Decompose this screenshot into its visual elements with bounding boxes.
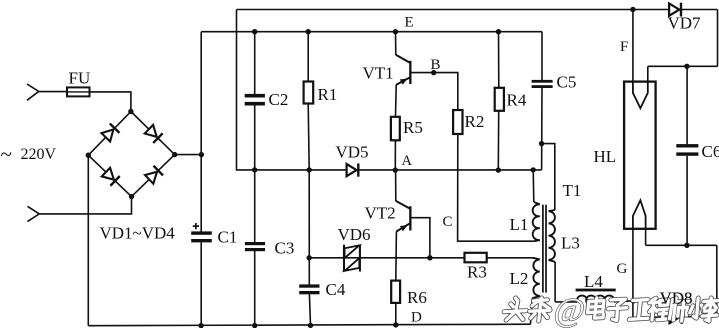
wire lamp bottom-right (646, 244, 717, 246)
label C6 (702, 142, 719, 161)
svg-text:C5: C5 (557, 73, 577, 92)
node C1 bottom rail (198, 323, 203, 328)
label VT2 (365, 204, 396, 223)
AC input terminal top (27, 84, 39, 100)
svg-text:C4: C4 (326, 280, 346, 299)
label R5 (403, 118, 423, 137)
resistor R4 (495, 88, 504, 111)
node C6 bottom junction (684, 243, 689, 248)
wire bridge edge VD4 (132, 155, 175, 197)
diode VD5 (347, 164, 359, 177)
svg-text:G: G (617, 261, 628, 277)
inductor L2 (531, 258, 540, 324)
label R6 (407, 288, 427, 307)
node C2C3-A junction (252, 167, 257, 172)
wire R2 to L1 bottom (458, 134, 535, 241)
node C4 bottom rail (308, 323, 313, 328)
svg-text:R3: R3 (467, 263, 487, 282)
svg-text:R6: R6 (407, 288, 427, 307)
svg-text:C2: C2 (269, 90, 289, 109)
diode VD4 (145, 166, 163, 184)
label VD7 (668, 14, 702, 33)
capacitor C6 (676, 144, 698, 156)
wire lamp top-right (648, 65, 718, 67)
svg-text:VD8: VD8 (660, 289, 693, 308)
node A (393, 167, 398, 172)
node C5-L3 junction (539, 141, 544, 146)
inductor L4 (576, 289, 616, 302)
wire fuse-to-bridge-top (90, 92, 131, 112)
node B (431, 70, 436, 75)
node C3 bottom rail (252, 323, 257, 328)
wire C2 upper (254, 32, 256, 94)
label VD5 (336, 143, 369, 162)
wire C1 column lower (200, 242, 202, 325)
wire VT2 collector (395, 170, 397, 201)
wire VD8 row (633, 316, 717, 317)
wire railE-to-C5 (541, 32, 543, 80)
svg-text:R4: R4 (507, 91, 527, 110)
transistor VT2 (396, 201, 412, 232)
resistor R5 (391, 117, 400, 141)
label F (620, 39, 628, 55)
label VD6 (338, 225, 371, 244)
wire VD6 column (308, 170, 310, 285)
wire lamp bottom-right pin (645, 229, 647, 246)
wire input-to-bridge-bottom (39, 197, 131, 214)
label T1 (563, 181, 582, 200)
diode VD3 (102, 168, 120, 186)
node VD6 junction (307, 255, 312, 260)
diode VD1 (102, 123, 120, 141)
wire right drop lower (716, 245, 718, 316)
wire R4 lower (497, 111, 499, 170)
node bridge bottom (129, 194, 134, 199)
wire lamp bottom-left pin (632, 229, 634, 318)
wire VD6-R3 row (309, 257, 533, 259)
watermark 头条@电子工程师小李 (502, 293, 719, 328)
svg-text:F: F (620, 39, 628, 55)
node R4-A junction (496, 167, 501, 172)
label R1 (318, 85, 338, 104)
label C1 (218, 228, 238, 247)
label D (411, 310, 422, 326)
wire A rail (255, 169, 542, 171)
wire bridge-minus-drop (87, 155, 89, 326)
label A (402, 153, 413, 169)
label VD8 overlay (660, 289, 693, 308)
resistor R3 (465, 253, 487, 262)
node VT2 base-R3 junction (427, 255, 432, 260)
label HL (594, 147, 617, 166)
svg-text:VT1: VT1 (363, 64, 394, 83)
capacitor C2 (245, 94, 265, 106)
svg-text:R2: R2 (465, 112, 485, 131)
wire C6 upper (686, 66, 688, 144)
node bridge right (172, 152, 177, 157)
label L3 (561, 234, 580, 253)
capacitor C1 (191, 223, 212, 242)
svg-text:L4: L4 (584, 272, 603, 291)
svg-text:L3: L3 (561, 234, 580, 253)
label R3 (467, 263, 487, 282)
node C2 rail E junction (252, 29, 257, 34)
node R1-A junction (307, 167, 312, 172)
node VT1 rail E (393, 29, 398, 34)
node R1 rail E (306, 29, 311, 34)
svg-text:L2: L2 (510, 269, 529, 288)
wire VT1 collector (395, 32, 397, 55)
label C3 (275, 239, 295, 258)
label C (443, 214, 453, 230)
svg-text:A: A (402, 153, 413, 169)
label FU (69, 69, 91, 88)
wire C2-C3 mid (254, 105, 256, 242)
svg-text:~: ~ (1, 142, 12, 166)
wire C3 lower (254, 251, 256, 326)
capacitor C3 (245, 242, 265, 251)
svg-text:VT2: VT2 (365, 204, 396, 223)
AC input terminal bottom (28, 206, 40, 221)
wire F drop (632, 10, 634, 82)
svg-text:HL: HL (594, 147, 617, 166)
label ~220V (1, 142, 57, 166)
transformer core T1 (543, 205, 546, 293)
diac VD6 (344, 245, 360, 272)
wire L3 feed (542, 144, 555, 210)
wire top-rail right drop (717, 10, 719, 67)
wire lamp top-right pin (647, 66, 649, 82)
svg-text:C3: C3 (275, 239, 295, 258)
svg-text:VD6: VD6 (338, 225, 371, 244)
inductor L3 (549, 210, 556, 302)
svg-text:R5: R5 (403, 118, 423, 137)
node G-L4 junction (631, 298, 636, 303)
capacitor C5 (532, 80, 553, 88)
label VT1 (363, 64, 394, 83)
wire bridge-plus-out (175, 154, 202, 156)
node C6 top junction (684, 64, 689, 69)
wire top rail (237, 9, 718, 11)
svg-text:FU: FU (69, 69, 91, 88)
inductor L1 (533, 170, 540, 241)
svg-text:VD7: VD7 (668, 14, 702, 33)
label VD8 (660, 289, 693, 308)
resistor R6 (391, 281, 400, 303)
wire R1 upper (307, 32, 309, 82)
svg-text:VD5: VD5 (336, 143, 369, 162)
wire bottom rail (88, 324, 530, 326)
resistor R2 (453, 110, 462, 134)
label VD1~VD4 (100, 224, 176, 243)
wire R4 upper (498, 32, 500, 88)
label L4 (584, 272, 603, 291)
fuse FU (67, 87, 90, 96)
wire VT2 emitter to R6 (395, 231, 398, 280)
node bridge top (128, 109, 133, 114)
svg-text:VD1~VD4: VD1~VD4 (100, 224, 176, 243)
transistor VT1 (396, 55, 412, 85)
diode VD7 (669, 3, 681, 17)
wire L4-to-lamp (614, 301, 634, 302)
wire bridge edge VD2 (131, 112, 175, 155)
node A-L1 junction (531, 167, 536, 172)
svg-text:C1: C1 (218, 228, 238, 247)
fluorescent lamp HL (624, 82, 656, 229)
label L1 (510, 215, 529, 234)
label C4 (326, 280, 346, 299)
label G (617, 261, 628, 277)
svg-text:T1: T1 (563, 181, 582, 200)
wire bridge edge VD3 (88, 155, 131, 196)
svg-text:D: D (411, 310, 422, 326)
wire C6 lower (686, 156, 688, 245)
wire rail E (201, 31, 542, 33)
label C5 (557, 73, 577, 92)
label L2 (510, 269, 529, 288)
wire C1 column upper (200, 32, 202, 232)
wire R5 to A (394, 140, 396, 170)
svg-text:C: C (443, 214, 453, 230)
node D rail (393, 322, 398, 327)
svg-text:220V: 220V (21, 146, 57, 163)
svg-text:E: E (405, 15, 414, 31)
node C1-bridge junction (199, 152, 204, 157)
svg-text:B: B (431, 57, 441, 73)
wire L3-to-L4 (555, 301, 577, 303)
wire C4 lower (309, 294, 310, 325)
wire VT1 emitter (395, 85, 398, 117)
wire input-to-fuse (39, 91, 67, 93)
label E (405, 15, 414, 31)
label R4 (507, 91, 527, 110)
wire VT1 base to B (411, 73, 458, 111)
diode VD2 (145, 125, 163, 143)
resistor R1 (304, 82, 314, 104)
label C2 (269, 90, 289, 109)
wire VT2 base down (412, 218, 430, 258)
node R4 rail E (496, 29, 501, 34)
capacitor C4 (299, 284, 319, 294)
wire top-rail left drop (237, 10, 255, 170)
svg-text:R1: R1 (318, 85, 338, 104)
node F top rail (630, 7, 635, 12)
label R2 (465, 112, 485, 131)
wire C5 lower (541, 88, 543, 170)
svg-text:L1: L1 (510, 215, 529, 234)
wire R6 lower (395, 303, 397, 325)
wire R1 lower (308, 103, 309, 170)
svg-text:C6: C6 (702, 142, 719, 161)
node bridge left (86, 153, 91, 158)
wire bridge edge VD1 (88, 112, 131, 156)
svg-text:@: @ (552, 293, 586, 328)
diode VD8 (669, 310, 681, 324)
label B (431, 57, 441, 73)
